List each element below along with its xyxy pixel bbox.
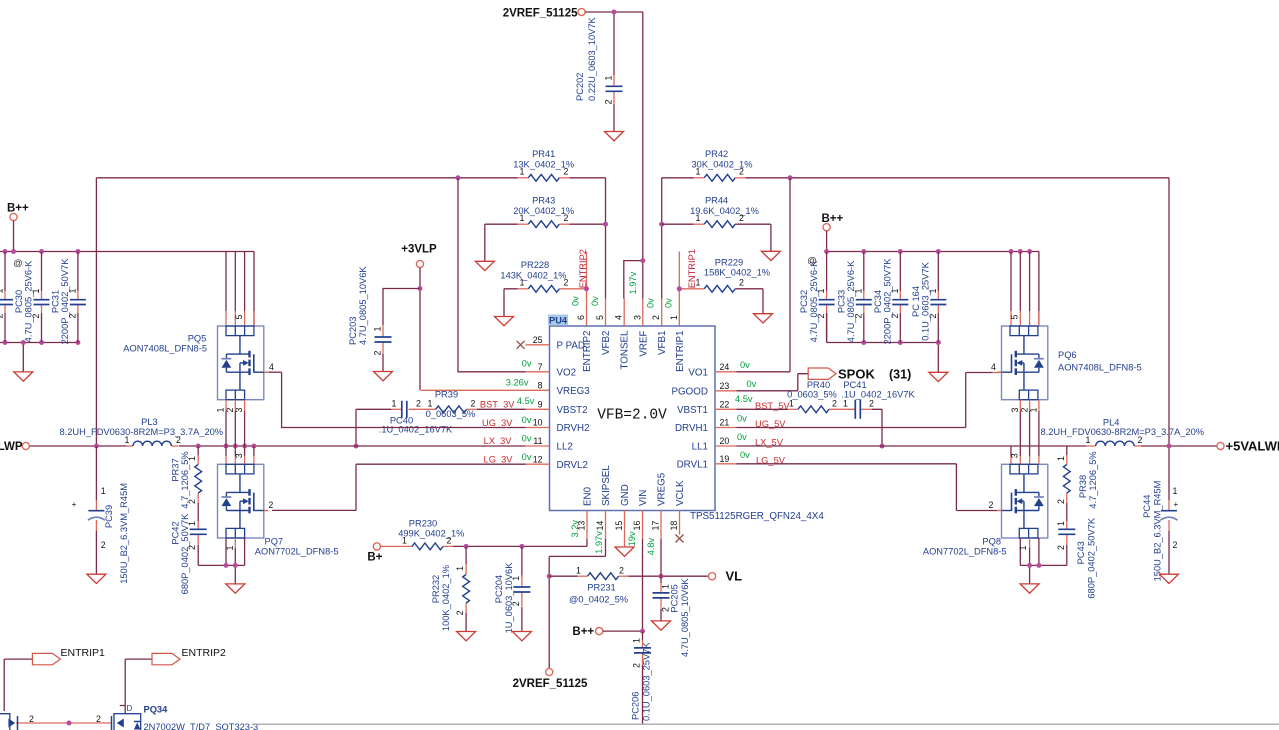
wire ENTRIP2 link [120,659,152,714]
svg-text:3: 3 [1010,453,1020,458]
svg-text:@0_0402_5%: @0_0402_5% [569,595,628,605]
wire PR43 left to ground [485,224,518,261]
junction dots right caps bottom [861,249,941,345]
svg-text:VL: VL [726,569,743,584]
svg-text:2VREF_51125: 2VREF_51125 [513,678,588,690]
svg-text:21: 21 [720,418,730,428]
wire PQ7 drain pins from node [226,446,254,464]
capacitor PC32 [799,252,835,343]
op-amp/controller U-box PU4 outline [550,326,716,511]
svg-text:2: 2 [660,607,670,612]
wire PR44 [662,224,771,251]
svg-text:0v: 0v [522,359,532,369]
wire LG_5V (DRVL1) [737,464,998,511]
svg-text:0v: 0v [747,379,757,389]
svg-text:1: 1 [455,566,465,571]
svg-text:GND: GND [620,484,631,506]
svg-text:2: 2 [372,351,382,356]
svg-text:LL2: LL2 [557,442,573,453]
svg-text:2: 2 [1173,540,1178,550]
no-connect X pin 18 VCLK [676,535,684,543]
svg-text:0v: 0v [740,360,750,370]
pin number PQ7 source 1 [225,546,235,551]
resistor PR41 [513,149,574,181]
wire +3VALWP feedback (left) [96,178,517,446]
svg-text:12: 12 [533,454,543,464]
resistor PR42 [691,149,752,181]
voltage notes bottom [570,520,656,556]
ground (PR228) [495,317,514,326]
svg-text:1: 1 [632,638,642,643]
svg-text:ENTRIP1: ENTRIP1 [61,647,106,659]
svg-text:17: 17 [651,521,661,531]
svg-text:VO1: VO1 [688,367,708,378]
svg-text:3.26v: 3.26v [506,378,529,388]
wire PC203 branch [383,289,420,372]
pin names left [557,340,591,470]
svg-text:2: 2 [603,100,613,105]
resistor PR39 [426,389,476,419]
svg-text:PR40: PR40 [807,380,830,390]
svg-text:4.7U_0805_25V6-K: 4.7U_0805_25V6-K [846,260,856,342]
wire PR228 right [559,288,586,290]
svg-text:2: 2 [176,435,181,445]
junction dot PR41 tap [456,175,461,180]
voltage notes left [506,359,535,462]
ground (PC203) [374,372,393,381]
svg-text:16: 16 [632,521,642,531]
svg-text:9: 9 [538,400,543,410]
wire PQ8 drain pins from node [1011,446,1039,464]
net label 2VREF_51125 (bottom) [513,668,588,690]
net label B++ (left) [7,202,29,220]
svg-text:2: 2 [471,399,476,409]
wire PQ34 source link [16,714,112,730]
svg-text:DRVH2: DRVH2 [557,423,590,434]
svg-text:1: 1 [660,584,670,589]
svg-text:14: 14 [595,521,605,531]
wire VL row [549,575,708,577]
no-connect X pin 25 [517,341,525,349]
pin names top [582,330,686,372]
svg-text:PC33: PC33 [836,290,846,313]
svg-text:2: 2 [619,565,624,575]
svg-text:0v: 0v [737,432,747,442]
svg-text:PC41: PC41 [843,380,866,390]
pin numbers right [720,362,730,464]
wire PR41 to VFB2 [570,178,606,299]
resistor PR229 [679,258,770,293]
svg-text:DRVL1: DRVL1 [677,459,708,470]
wire PGOOD to SPOK [737,374,809,391]
net label +3VLP [401,244,437,268]
junction dots left caps bottom [3,340,81,345]
svg-text:.1U_0402_16V7K: .1U_0402_16V7K [379,425,453,435]
wire BST_3V [356,409,526,446]
svg-text:ENTRIP2: ENTRIP2 [182,647,227,659]
svg-text:P PAD: P PAD [557,340,586,351]
ground (PC204) [512,632,531,641]
svg-text:PC203: PC203 [348,317,358,345]
sheet border (bottom) [252,723,1279,725]
svg-text:PQ6: PQ6 [1058,350,1077,360]
svg-text:4: 4 [269,362,274,372]
svg-text:DRVH1: DRVH1 [675,423,708,434]
svg-text:680P_0402_50V7K: 680P_0402_50V7K [1086,517,1096,598]
svg-text:PR228: PR228 [521,260,549,270]
pin names bottom [583,465,687,506]
svg-text:24: 24 [720,362,730,372]
svg-text:1U_0603_10V6K: 1U_0603_10V6K [504,562,514,634]
svg-text:2: 2 [564,167,569,177]
svg-text:2: 2 [1138,435,1143,445]
junction dot ENTRIP1 [677,286,682,291]
junction dot VFB2/PR43 [603,222,608,227]
svg-text:1: 1 [225,546,235,551]
wire PR232 branch [465,546,467,631]
svg-text:.1U_0402_16V7K: .1U_0402_16V7K [841,390,915,400]
ground (PQ8) [1020,584,1039,593]
capacitor PC30 [14,252,50,343]
svg-text:150U_B2_6.3VM_R45M: 150U_B2_6.3VM_R45M [1153,481,1163,582]
svg-text:ENTRIP1: ENTRIP1 [675,331,686,372]
svg-text:PR38: PR38 [1078,475,1088,498]
svg-text:PR41: PR41 [532,149,555,159]
wire ENTRIP1 link [4,659,32,711]
wire PQ7 source pins to gnd bus [198,538,244,584]
net label B++ (right) [822,213,844,231]
svg-text:25: 25 [533,335,543,345]
svg-text:+5VALWP: +5VALWP [1226,439,1279,454]
inductor PL3 [60,417,224,446]
capacitor PC206 [631,638,652,721]
svg-text:AON7702L_DFN8-5: AON7702L_DFN8-5 [923,547,1007,557]
svg-text:4.7_1206_5%: 4.7_1206_5% [1088,451,1098,508]
capacitor PC41 [841,380,915,419]
junction dots B+ row [464,544,525,549]
svg-text:2: 2 [651,315,661,320]
svg-text:VREG5: VREG5 [657,472,668,506]
net label 2VREF_51125 (top) [503,8,585,20]
wire VO1 to feedback [737,178,791,372]
junction dot PL4 output [1167,444,1172,449]
svg-text:2: 2 [989,500,994,510]
svg-text:2200P_0402_50V7K: 2200P_0402_50V7K [60,258,70,345]
svg-text:ENTRIP2: ENTRIP2 [578,249,588,288]
wire PR42 right (output feedback) [746,178,1170,446]
svg-text:1: 1 [187,521,197,526]
svg-text:1: 1 [520,167,525,177]
svg-text:2: 2 [1056,499,1066,504]
svg-text:AON7702L_DFN8-5: AON7702L_DFN8-5 [255,547,339,557]
ground (PR44) [761,251,780,260]
PU4 reference designator [548,315,568,326]
transistor PQ5 [123,315,268,400]
svg-text:0v: 0v [740,450,750,460]
capacitor PC43 [1056,517,1096,598]
svg-text:22: 22 [720,400,730,410]
pin number PQ8 gate 2 [989,500,994,510]
svg-text:3: 3 [234,453,244,458]
svg-text:2: 2 [455,610,465,615]
svg-text:7: 7 [538,362,543,372]
voltage notes right [735,360,757,460]
svg-text:PR232: PR232 [431,575,441,603]
wire PC39 branch [95,446,97,574]
resistor PR38 [1056,451,1098,508]
svg-text:0.22U_0603_10V7K: 0.22U_0603_10V7K [587,16,597,101]
ground (PC39) [87,574,106,583]
svg-text:PC42: PC42 [171,521,181,544]
net connector SPOK [808,367,911,382]
ground (PC202) [605,132,624,141]
svg-text:PQ34: PQ34 [144,705,169,715]
svg-text:PQ8: PQ8 [982,537,1001,547]
svg-text:2200P_0402_50V7K: 2200P_0402_50V7K [883,258,893,345]
svg-text:VIN: VIN [638,490,649,506]
svg-text:8.2UH_FDV0630-8R2M=P3_3.7A_20%: 8.2UH_FDV0630-8R2M=P3_3.7A_20% [1041,427,1205,437]
svg-text:2: 2 [447,536,452,546]
ground (GND pin 15) [615,547,634,556]
svg-text:@: @ [807,256,817,267]
svg-text:BST_3V: BST_3V [480,400,515,410]
svg-text:5: 5 [1010,315,1020,320]
resistor PR232 [431,565,470,631]
svg-text:PR39: PR39 [435,389,458,399]
svg-text:20: 20 [720,436,730,446]
resistor PR230 [398,518,464,550]
junction dot +3VLP [418,286,423,291]
net label +3VALWP (cut) [0,441,29,453]
wire UG_5V [737,373,1002,428]
svg-text:3: 3 [632,315,642,320]
svg-text:1: 1 [392,399,397,409]
svg-text:0v: 0v [522,434,532,444]
svg-text:VFB1: VFB1 [657,331,668,356]
svg-text:6: 6 [576,315,586,320]
svg-text:PR229: PR229 [715,258,743,268]
voltage notes top [571,271,674,308]
svg-text:0v: 0v [737,414,747,424]
svg-text:PC43: PC43 [1076,541,1086,564]
junction dots PQ8 gnd bus [1027,563,1041,568]
svg-text:DRVL2: DRVL2 [557,460,588,471]
svg-text:B+: B+ [367,551,382,563]
svg-text:18: 18 [669,521,679,531]
svg-text:1: 1 [843,399,848,409]
capacitor PC33 [836,252,872,343]
svg-text:1: 1 [125,435,130,445]
svg-text:4.8v: 4.8v [646,537,656,555]
svg-text:TONSEL: TONSEL [620,330,631,370]
svg-text:19v: 19v [627,531,637,546]
svg-text:PC 164: PC 164 [911,286,921,317]
ground (right cap bank) [929,372,948,381]
svg-text:11: 11 [533,436,542,446]
svg-text:PR43: PR43 [532,196,555,206]
ground (PC205) [652,621,671,630]
capacitor PC44 (electrolytic) [1142,481,1178,582]
wire left caps bottom bus [0,343,78,372]
svg-text:VREF: VREF [638,330,649,356]
ground (PQ7) [226,584,245,593]
svg-text:2: 2 [29,714,34,724]
wire PQ5 source pins to node [226,400,245,446]
svg-text:0_0603_5%: 0_0603_5% [787,390,837,400]
svg-text:PC30: PC30 [14,290,24,313]
svg-text:PQ5: PQ5 [188,334,207,344]
wire VO2 net [458,178,526,372]
svg-text:PC32: PC32 [799,290,809,313]
capacitor PC40 [379,399,453,435]
svg-text:PC206: PC206 [631,692,641,720]
resistor PR44 [690,196,759,228]
svg-text:PU4: PU4 [549,316,568,326]
wire LX_5V (LL1) [737,445,1217,447]
svg-text:143K_0402_1%: 143K_0402_1% [500,270,566,280]
svg-text:VFB=2.0V: VFB=2.0V [597,408,667,424]
svg-text:1: 1 [520,213,525,223]
wire PR42 left to VFB1 [662,178,694,299]
svg-text:4.5v: 4.5v [735,394,753,404]
svg-text:499K_0402_1%: 499K_0402_1% [398,529,464,539]
svg-text:0v: 0v [646,298,656,308]
wire PQ8 source pins to gnd bus [1020,538,1067,584]
pin number PQ6 gate 4 [991,362,996,372]
resistor PR37 [171,451,202,508]
wire +3VLP to VREG3 [420,268,550,391]
pin numbers bottom 13..18 [577,521,680,531]
svg-text:2: 2 [187,545,197,550]
svg-text:TPS51125RGER_QFN24_4X4: TPS51125RGER_QFN24_4X4 [690,511,824,522]
svg-text:4.7U_0805_25V6-K: 4.7U_0805_25V6-K [24,260,34,342]
capacitor PC31 [50,252,86,345]
wire 2VREF_51125 top net [585,12,643,299]
svg-text:2: 2 [739,213,744,223]
svg-text:0_0603_5%: 0_0603_5% [426,409,476,419]
svg-text:AON7408L_DFN8-5: AON7408L_DFN8-5 [123,344,207,354]
pin number PQ8 source 1 [1018,546,1028,551]
svg-text:B++: B++ [7,202,29,214]
svg-text:VFB2: VFB2 [601,331,612,356]
svg-text:2VREF_51125: 2VREF_51125 [503,8,578,20]
svg-text:100K_0402_1%: 100K_0402_1% [441,565,451,631]
svg-text:4: 4 [991,362,996,372]
svg-text:1: 1 [1086,435,1091,445]
@ symbol (right bank) [807,256,817,267]
junction dots output node left [94,444,257,449]
svg-text:1: 1 [402,536,407,546]
net names right (5V) [755,401,790,466]
svg-text:PC202: PC202 [575,73,585,101]
svg-text:PR44: PR44 [705,196,728,206]
wire right caps bottom bus [827,313,939,372]
wire PR43 right [570,223,606,225]
wire PQ6 source pins to node [1020,400,1039,446]
svg-text:1: 1 [669,315,679,320]
junction dot VIN/B++ [640,629,645,634]
svg-text:4.7U_0805_10V6K: 4.7U_0805_10V6K [680,578,690,657]
svg-text:ENTRIP1: ENTRIP1 [687,249,697,288]
wire PC204 branch [521,546,523,631]
svg-text:B++: B++ [572,626,594,638]
svg-text:B++: B++ [822,213,844,225]
wire B++ left bus [0,221,254,326]
svg-text:PC31: PC31 [50,290,60,313]
wire LX_3V (LL2) [29,445,525,447]
svg-text:1: 1 [789,399,794,409]
net connector ENTRIP2 [152,647,226,665]
svg-text:0v: 0v [571,296,581,306]
pin numbers PQ6 source 3,2,1 [1010,408,1039,413]
wire PC206 branch [642,631,644,724]
svg-text:2: 2 [187,499,197,504]
wire PR229 [735,289,763,314]
wire PQ5 drain pins from B++ bus [226,252,254,327]
junction dots 2VREF net [612,10,646,264]
pin stubs right [715,372,737,464]
capacitor PC164 [911,252,947,343]
svg-text:2N7002W_T/D7_SOT323-3: 2N7002W_T/D7_SOT323-3 [144,722,259,730]
svg-text:0v: 0v [590,296,600,306]
svg-text:@: @ [13,258,23,269]
svg-text:2: 2 [0,314,5,319]
IC center text VFB=2.0V [597,408,667,424]
svg-text:UG_3V: UG_3V [482,418,513,428]
svg-text:VCLK: VCLK [675,480,686,506]
net label B++ (bottom) [572,626,602,638]
net connector ENTRIP1 [32,647,105,665]
svg-text:15: 15 [614,521,624,531]
capacitor (cut, far left) [0,252,13,343]
svg-text:PC205: PC205 [670,584,680,612]
transistor PQ6 [997,315,1142,400]
svg-text:+3VLP: +3VLP [401,244,437,256]
svg-text:PR42: PR42 [705,149,728,159]
resistor PR40 [787,380,837,413]
svg-text:1: 1 [520,278,525,288]
svg-text:LL1: LL1 [692,442,708,453]
ground (PC44) [1160,574,1179,583]
resistor PR231 [569,565,628,604]
net label B+ [367,543,382,563]
transistor (partial, bottom-left) [0,714,15,730]
wire PR228 left to ground [504,289,518,317]
svg-text:1: 1 [511,576,521,581]
svg-text:PC39: PC39 [104,505,114,528]
wire VIN branch [642,539,644,631]
svg-text:2: 2 [1056,545,1066,550]
svg-text:1: 1 [101,486,106,496]
net label VL [709,569,743,584]
inductor PL4 [1041,417,1205,446]
svg-text:AON7408L_DFN8-5: AON7408L_DFN8-5 [1058,362,1142,372]
svg-text:1: 1 [696,213,701,223]
wire B++ to VIN [603,630,643,632]
pin numbers PQ5 source 1,2,3 [216,408,245,413]
svg-text:0v: 0v [522,415,532,425]
junction dot 2VREF/VL [547,574,552,579]
svg-text:1: 1 [603,76,613,81]
svg-text:4.5v: 4.5v [517,396,535,406]
junction dot VREG5/VL [659,574,664,579]
net stub ENTRIP2 (pin 6) [578,249,588,326]
junction dot PC40/LL2 [354,444,359,449]
svg-text:2: 2 [101,540,106,550]
wire VREG5 branch [660,539,662,621]
svg-text:150U_B2_6.3VM_R45M: 150U_B2_6.3VM_R45M [119,483,129,584]
ground (left cap bank) [14,372,33,381]
